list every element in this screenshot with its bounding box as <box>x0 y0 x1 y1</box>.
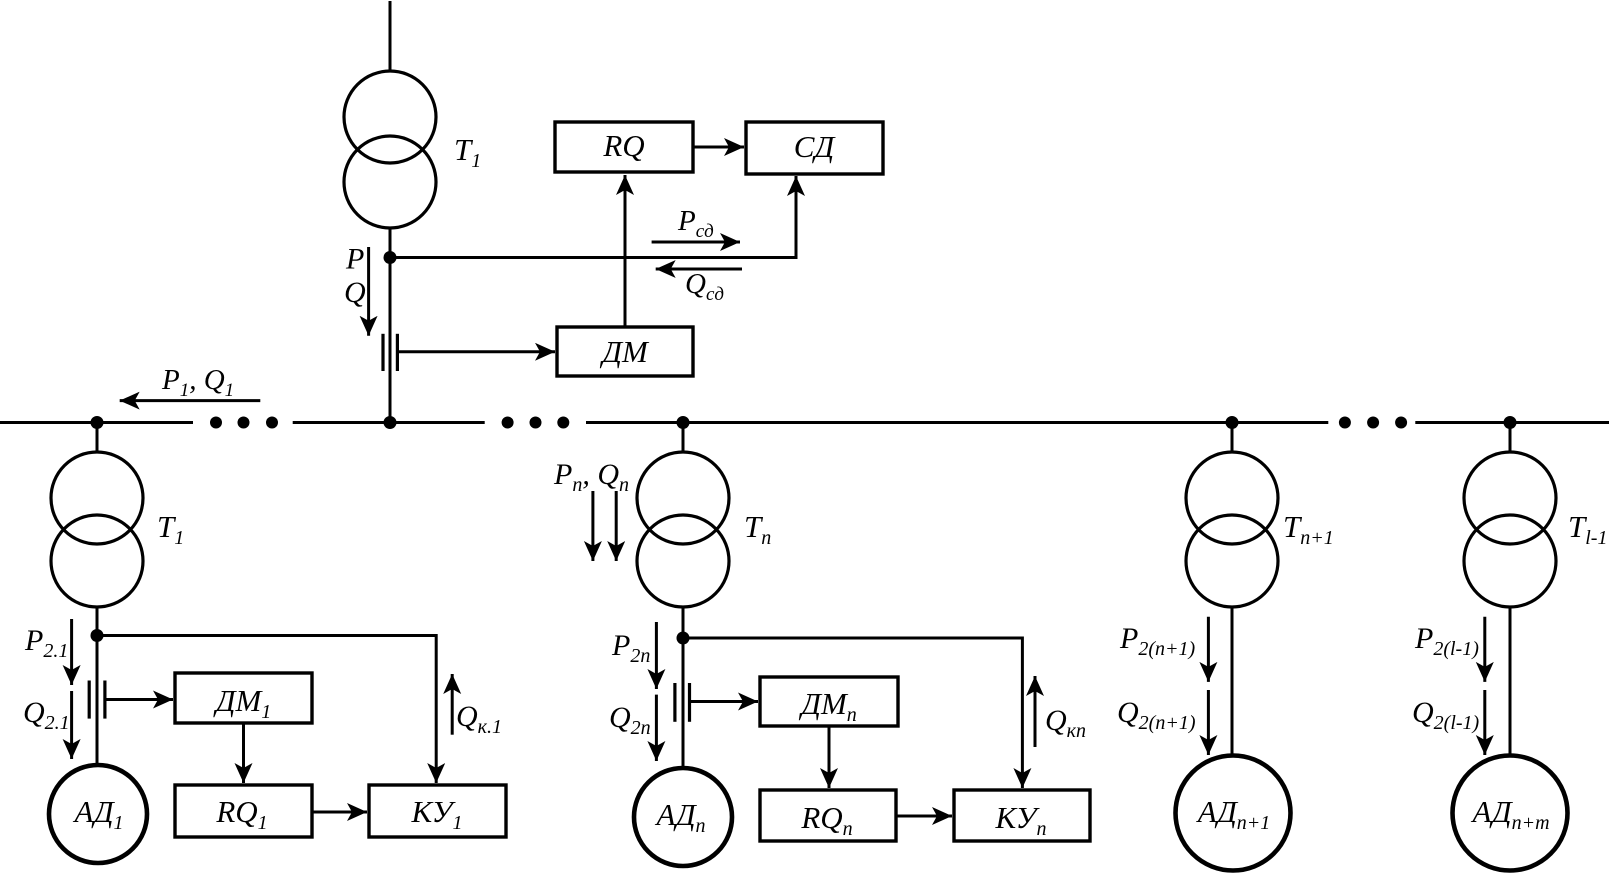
svg-text:RQ1: RQ1 <box>215 794 267 834</box>
svg-text:P1, Q1: P1, Q1 <box>161 364 234 401</box>
arrow Qkn up <box>1034 676 1037 747</box>
wire bus to Tl-1 <box>1509 423 1512 454</box>
current tap bars branch n <box>675 683 690 722</box>
arrow Q2.1 down <box>70 691 73 759</box>
arrow P1,Q1 left <box>120 399 261 402</box>
bus break dots 3 <box>1339 417 1407 429</box>
bus segment 1 <box>0 421 193 424</box>
svg-text:P2(n+1): P2(n+1) <box>1119 622 1195 660</box>
wire T1 to bus <box>389 227 392 423</box>
node branch1 tap <box>91 629 104 642</box>
box RQ1 <box>175 785 312 837</box>
svg-text:P: P <box>345 243 364 276</box>
arrow Qsd left <box>656 268 742 271</box>
transformer T1 (top) <box>344 71 436 228</box>
wire Tl-1 to ADn+m <box>1509 606 1512 757</box>
arrow Q2(l-1) down <box>1483 690 1486 755</box>
svg-text:АД1: АД1 <box>72 794 123 834</box>
node at T1 tap <box>384 251 397 264</box>
svg-text:Qк.1: Qк.1 <box>456 700 502 738</box>
svg-text:P2.1: P2.1 <box>24 624 68 662</box>
box RQn <box>760 790 896 841</box>
svg-text:ДМ: ДМ <box>599 334 650 369</box>
svg-text:Qкn: Qкn <box>1045 704 1086 742</box>
bus segment 3 <box>586 421 1328 424</box>
arrow Qn down <box>615 491 618 561</box>
arrow RQ to SD <box>693 146 744 149</box>
svg-text:P2(l-1): P2(l-1) <box>1414 622 1479 660</box>
svg-text:RQ: RQ <box>602 128 644 163</box>
motor AD1 <box>49 765 147 863</box>
bus junction dots <box>91 416 1517 429</box>
svg-text:ДМn: ДМn <box>798 686 857 726</box>
svg-text:Q: Q <box>344 276 366 309</box>
wire node to KUn <box>683 638 1022 788</box>
svg-text:ДМ1: ДМ1 <box>213 683 272 723</box>
wire Tn to ADn <box>682 606 685 769</box>
box KU1 <box>369 785 506 837</box>
transformer T1 (branch 1) <box>51 452 143 607</box>
svg-text:Pсд: Pсд <box>677 205 714 242</box>
svg-text:Q2.1: Q2.1 <box>23 696 70 734</box>
wire bus to Tn <box>682 423 685 454</box>
svg-text:T1: T1 <box>454 132 481 172</box>
arrow RQn to KUn <box>896 815 952 818</box>
transformer Tl-1 <box>1464 452 1556 607</box>
svg-text:Tn+1: Tn+1 <box>1283 509 1334 549</box>
wire bus to T1 branch1 <box>96 423 99 454</box>
box KUn <box>954 790 1090 841</box>
arrow tap to DMn <box>690 700 759 703</box>
arrow Pn down <box>591 491 594 561</box>
box DM <box>557 327 693 376</box>
svg-text:Pn, Qn: Pn, Qn <box>553 458 629 496</box>
arrow RQ1 to KU1 <box>312 811 367 814</box>
arrow DMn to RQn <box>828 726 831 788</box>
arrow Q2n down <box>655 695 658 761</box>
svg-text:Tl-1: Tl-1 <box>1568 509 1607 549</box>
motor ADn+1 <box>1176 756 1291 871</box>
svg-text:КУn: КУn <box>994 800 1046 840</box>
transformer Tn <box>637 452 729 607</box>
arrow P2(l-1) down <box>1483 617 1486 682</box>
arrow P,Q down at T1 <box>367 247 370 336</box>
svg-text:T1: T1 <box>157 509 184 549</box>
arrow tap to DM1 <box>105 698 173 701</box>
transformer Tn+1 <box>1186 452 1278 607</box>
svg-text:Tn: Tn <box>744 509 771 549</box>
arrow Q2(n+1) down <box>1207 690 1210 755</box>
wire node to KU1 <box>97 636 436 784</box>
svg-text:АДn: АДn <box>654 797 705 837</box>
node branch n tap <box>677 632 690 645</box>
wire Tn+1 to ADn+1 <box>1231 606 1234 757</box>
svg-text:СД: СД <box>794 129 837 164</box>
wire top feeder <box>389 1 392 72</box>
current tap bars branch1 <box>89 681 105 719</box>
svg-text:АДn+m: АДn+m <box>1470 794 1549 834</box>
current tap bars (top) <box>383 334 397 371</box>
svg-text:Q2(l-1): Q2(l-1) <box>1412 696 1480 734</box>
arrow P2.1 down <box>70 619 73 685</box>
bus segment 4 <box>1415 421 1609 424</box>
box DMn <box>760 677 898 726</box>
box RQ <box>555 122 693 172</box>
arrow P2(n+1) down <box>1207 617 1210 682</box>
svg-text:АДn+1: АДn+1 <box>1196 794 1271 834</box>
svg-text:Q2n: Q2n <box>609 701 651 739</box>
svg-text:RQn: RQn <box>800 800 852 840</box>
wire T1 to AD1 <box>96 606 99 766</box>
bus break dots 2 <box>502 417 570 429</box>
motor ADn+m <box>1453 756 1568 871</box>
arrow DM1 to RQ1 <box>242 723 245 783</box>
arrow P2n down <box>655 622 658 689</box>
svg-text:P2n: P2n <box>611 629 650 667</box>
box DM1 <box>175 673 312 723</box>
svg-text:Q2(n+1): Q2(n+1) <box>1117 696 1196 734</box>
arrow Qk1 up <box>451 674 454 735</box>
arrow Psd right <box>652 241 740 244</box>
svg-text:Qсд: Qсд <box>685 268 724 305</box>
motor ADn <box>634 768 732 866</box>
svg-text:КУ1: КУ1 <box>410 794 462 834</box>
wire node to SD riser <box>390 176 796 258</box>
arrow DM to RQ <box>624 175 627 327</box>
wire bus to Tn+1 <box>1231 423 1234 454</box>
bus break dots 1 <box>210 417 278 429</box>
box SD <box>746 122 883 174</box>
bus segment 2 <box>293 421 485 424</box>
arrow tap to DM box <box>397 350 555 353</box>
